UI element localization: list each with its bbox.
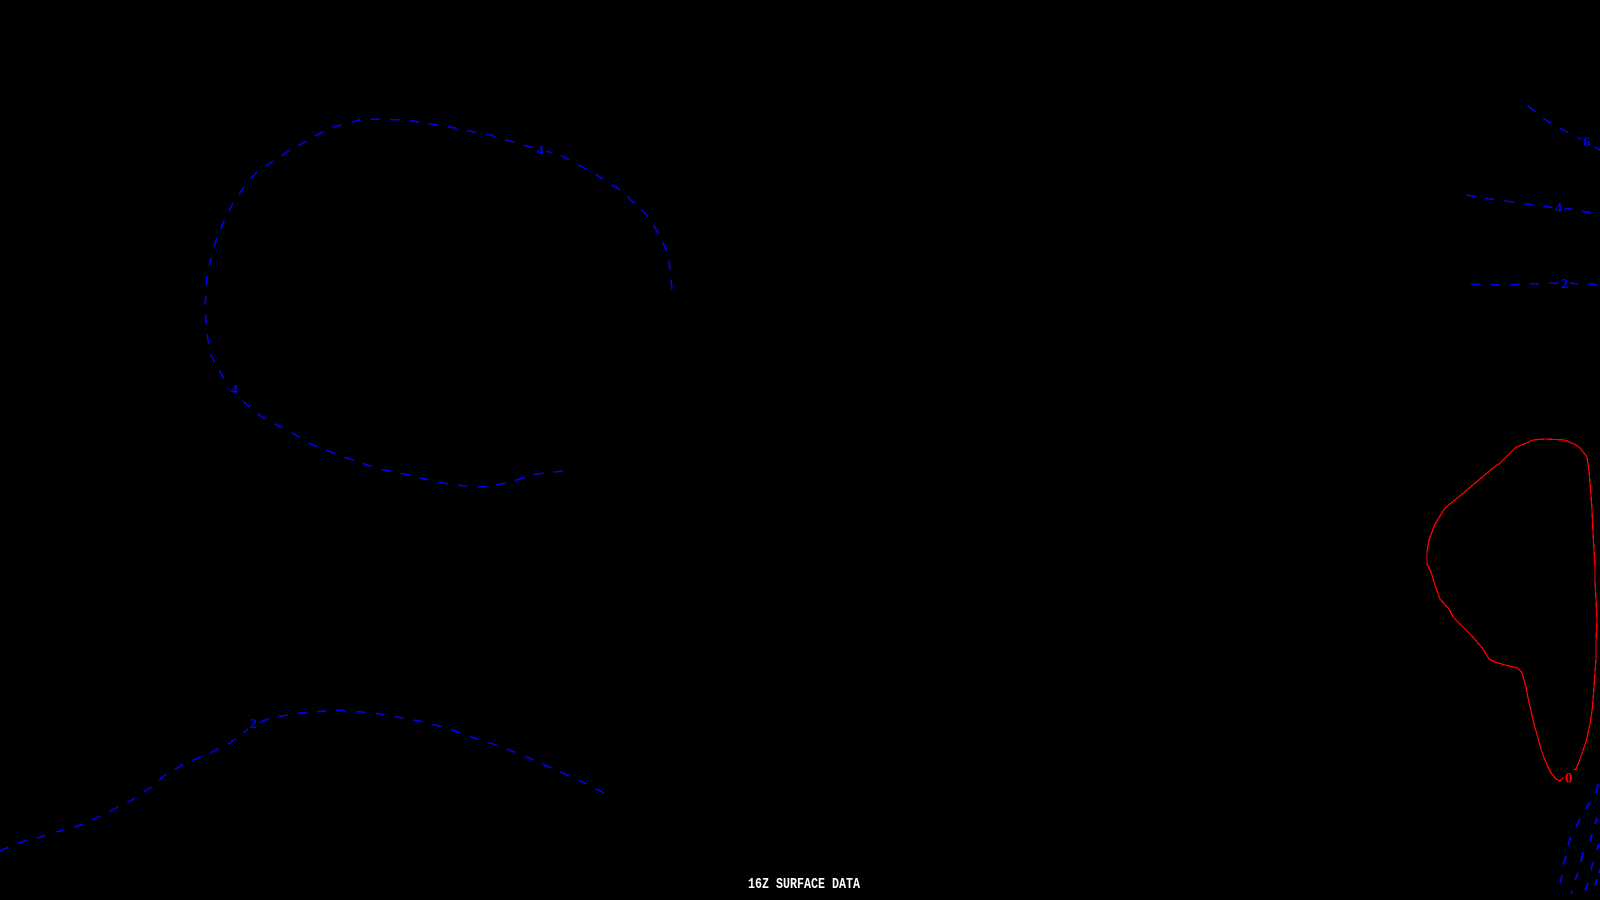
svg-text:0: 0 (1565, 771, 1573, 787)
converging dashed blue isotherms (bottom right corner hatch) (1560, 784, 1600, 894)
svg-text:2: 2 (250, 717, 257, 732)
big -4 isotherm contour (dashed blue open loop, upper left) (205, 119, 672, 487)
hatch dash (1590, 834, 1592, 841)
svg-text:6: 6 (1583, 135, 1590, 150)
label background masks (gaps in lines at labels) (229, 135, 1592, 785)
hatch dash (1591, 862, 1593, 870)
hatch dash (1585, 883, 1588, 891)
isotherm 4 line (right) (1466, 195, 1600, 215)
hatch dash (1597, 844, 1599, 850)
hatch dash (1576, 819, 1580, 827)
hatch dash (1599, 869, 1600, 873)
hatch dash (1596, 784, 1598, 793)
isotherm 6 line (top right) (1528, 106, 1600, 150)
svg-text:4: 4 (537, 144, 544, 159)
svg-text:16Z SURFACE DATA: 16Z SURFACE DATA (748, 876, 860, 893)
hatch dash (1586, 802, 1590, 809)
svg-text:4: 4 (231, 383, 238, 398)
isotherm 2 contour (bottom left arc) (0, 710, 613, 851)
label 0 (red contour) (1565, 771, 1573, 787)
svg-text:4: 4 (1555, 201, 1562, 216)
hatch dash (1595, 879, 1597, 886)
svg-text:2: 2 (1561, 277, 1568, 292)
hatch dash (1575, 873, 1578, 880)
hatch dash (1563, 856, 1566, 865)
0 isotherm contour (solid red closed loop, right) (1427, 439, 1597, 781)
contour labels (231, 135, 1591, 732)
hatch dash (1568, 837, 1571, 845)
hatch dash (1595, 818, 1597, 824)
hatch dash (1571, 891, 1572, 894)
title: 16Z SURFACE DATA (748, 876, 860, 893)
isotherm 2 line (right) (1471, 283, 1600, 285)
hatch dash (1581, 852, 1583, 862)
hatch dash (1560, 875, 1562, 883)
